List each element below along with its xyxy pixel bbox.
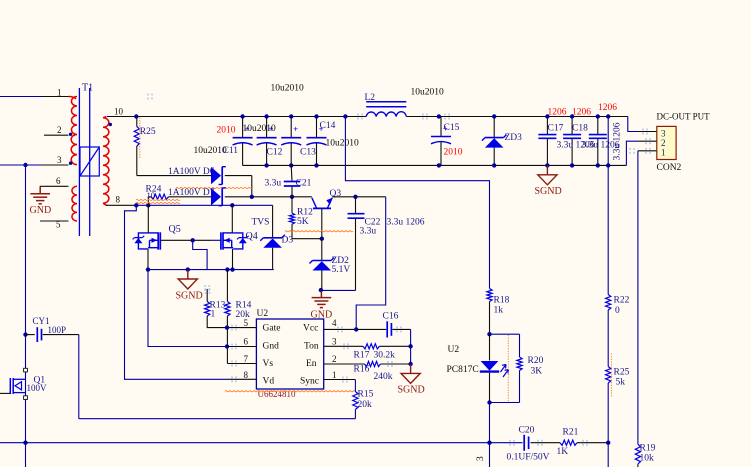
node c19 bot	[596, 163, 600, 167]
svg-text:5: 5	[56, 220, 61, 230]
erc ticks rail	[357, 114, 588, 446]
orange mark under R24 b	[136, 202, 180, 203]
wire pin 10 stub	[107, 116, 136, 118]
svg-text:10k: 10k	[640, 453, 655, 463]
transistor Q3	[312, 189, 341, 208]
pin number 5	[244, 318, 249, 328]
capacitor C12	[257, 117, 283, 166]
orange mark opto	[507, 335, 509, 402]
svg-text:0: 0	[615, 306, 620, 316]
node left-rail bottom	[23, 441, 27, 445]
svg-text:R18: R18	[494, 296, 510, 306]
label pin 1	[57, 88, 62, 98]
svg-text:Sync: Sync	[300, 376, 319, 386]
node ton/en	[408, 344, 412, 348]
optocoupler U2 PC817C LED	[447, 334, 509, 402]
transformer phase dot left lower	[69, 162, 72, 165]
wire Q5-Q4 gate link	[160, 239, 211, 241]
svg-text:C12: C12	[267, 147, 283, 157]
node pin8 junction a	[134, 203, 138, 207]
svg-text:Q4: Q4	[246, 231, 258, 242]
node zd3 top	[492, 114, 496, 118]
wire D6 anode rail	[137, 175, 211, 177]
resistor R22	[606, 295, 630, 317]
inductor L2	[365, 93, 407, 117]
resistor R25 (lower)	[606, 354, 630, 398]
wire pin2 stub	[639, 140, 657, 142]
wire Vcc pin	[324, 328, 357, 330]
node c14 bot	[314, 163, 318, 167]
wire gnd-pin drop	[148, 270, 227, 347]
svg-text:5K: 5K	[297, 217, 309, 227]
wire Gnd pin stub	[227, 346, 256, 348]
svg-text:ZD3: ZD3	[505, 133, 523, 143]
resistor R15	[353, 389, 374, 418]
svg-text:6: 6	[244, 337, 249, 347]
node c13 top	[289, 114, 293, 118]
wire pin1 drop	[637, 151, 639, 445]
svg-text:C11: C11	[223, 146, 239, 156]
svg-text:Ton: Ton	[304, 341, 319, 351]
connector CON2	[657, 111, 711, 173]
node c15 top	[437, 114, 441, 118]
wire primary pin 3 net	[0, 164, 69, 166]
label pin 2	[57, 125, 62, 135]
label 10u2010 (L2)	[411, 88, 445, 98]
svg-text:R21: R21	[563, 428, 579, 438]
svg-text:10u2010: 10u2010	[326, 138, 360, 148]
node pin3/left-rail junction	[23, 163, 27, 167]
transformer T1 core	[79, 88, 89, 236]
svg-text:2: 2	[332, 354, 337, 364]
wire pin3 stub	[639, 131, 657, 133]
wire sgnd bus	[148, 269, 274, 271]
svg-text:C18: C18	[572, 124, 588, 134]
capacitor C17	[538, 117, 563, 166]
label 3.3u 1206 b	[582, 140, 620, 150]
wire D7 anode	[169, 196, 212, 198]
svg-text:10u2010: 10u2010	[411, 88, 445, 98]
resistor R19	[635, 443, 655, 467]
label 1206 (C19)	[598, 103, 617, 113]
svg-text:1: 1	[661, 148, 666, 158]
node c15 bot	[437, 163, 441, 167]
wire Q3 base	[321, 209, 323, 239]
svg-text:1: 1	[57, 88, 62, 98]
orange mark under R24 a	[136, 199, 180, 200]
node c13 bot	[289, 163, 293, 167]
svg-text:2: 2	[661, 138, 666, 148]
node c11 top	[240, 114, 244, 118]
node opto top	[487, 332, 491, 336]
node en	[408, 362, 412, 366]
svg-text:+: +	[293, 125, 298, 134]
svg-text:3: 3	[661, 128, 666, 138]
pin name Sync	[300, 376, 319, 386]
pin number 1	[332, 370, 337, 380]
node sense mid	[606, 163, 610, 167]
svg-text:3: 3	[332, 337, 337, 347]
resistor R14	[225, 270, 252, 364]
ground SGND (output)	[535, 165, 562, 196]
pin number 6	[244, 337, 249, 347]
label 10u2010 (C12)	[243, 124, 277, 134]
svg-text:R25: R25	[614, 368, 630, 378]
node base/zd2	[320, 237, 324, 241]
pin name En	[306, 359, 317, 369]
svg-text:100V: 100V	[27, 383, 48, 393]
node D6/D7 join	[250, 195, 254, 199]
label pin 6	[56, 176, 61, 186]
resistor R13	[204, 285, 227, 328]
svg-text:Q3: Q3	[330, 189, 342, 199]
wire sync bottom rail	[79, 418, 356, 420]
wire C22-rail drop to Vcc	[356, 197, 386, 330]
diode D6	[211, 167, 226, 185]
wire R16 to node	[381, 346, 411, 364]
transistor Q4	[221, 231, 258, 250]
wire Q4 source	[232, 249, 234, 270]
node sgnd bus sgnd-stub	[186, 267, 190, 271]
ground GND (primary)	[30, 186, 52, 216]
svg-text:3: 3	[476, 456, 486, 461]
node sense top	[606, 114, 610, 118]
svg-text:100P: 100P	[48, 325, 67, 335]
svg-text:20k: 20k	[358, 400, 373, 410]
wire Vcc to C16	[356, 328, 386, 330]
label pin 8	[116, 195, 121, 205]
wire R12 to base	[292, 238, 322, 240]
svg-text:Vcc: Vcc	[303, 323, 318, 333]
node zd2/gnd	[319, 288, 323, 292]
svg-text:PC817C: PC817C	[447, 365, 479, 375]
node gate link tap	[191, 238, 195, 242]
capacitor C16	[383, 311, 399, 337]
wire opto to rail	[489, 403, 491, 467]
label 3.3u 1206 a	[557, 140, 595, 150]
transistor Q1	[0, 368, 47, 399]
svg-text:3K: 3K	[531, 367, 543, 377]
zener ZD3	[482, 117, 522, 166]
svg-text:C21: C21	[296, 178, 312, 188]
node c14 top	[314, 114, 318, 118]
node R12 tap	[290, 195, 294, 199]
svg-text:T1: T1	[82, 83, 93, 94]
svg-text:3: 3	[57, 155, 62, 165]
pin number 8	[244, 370, 249, 380]
capacitor C15	[431, 117, 463, 166]
node rail/opto	[487, 441, 491, 445]
label net 3 rotated	[476, 456, 486, 461]
wire bottom cap bus	[243, 164, 627, 166]
node pc817 feed tap	[343, 114, 347, 118]
svg-text:0.1UF/50V: 0.1UF/50V	[507, 453, 550, 463]
svg-text:U2: U2	[448, 345, 460, 355]
svg-text:R14: R14	[236, 300, 252, 310]
node rail/sense	[606, 441, 610, 445]
node C22 tap	[353, 195, 357, 199]
label U2 (controller)	[257, 309, 269, 319]
svg-text:7: 7	[244, 354, 249, 364]
svg-text:C15: C15	[444, 123, 460, 133]
transformer T1 secondary winding (pins 10-8)	[103, 117, 109, 206]
wire En pin	[324, 363, 365, 365]
svg-text:U6624810: U6624810	[258, 389, 296, 399]
node c12 bot	[264, 163, 268, 167]
orange mark under U2 box	[225, 391, 355, 392]
label U6624810	[258, 389, 296, 399]
svg-text:C14: C14	[320, 121, 336, 131]
wire Q3 emitter rail	[332, 196, 386, 198]
svg-text:10: 10	[114, 107, 124, 117]
wire primary pin 1 net	[0, 96, 69, 98]
wire D7 cathode rail	[225, 196, 292, 198]
svg-text:En: En	[306, 359, 317, 369]
svg-text:SGND: SGND	[398, 384, 425, 395]
node c18 top	[570, 114, 574, 118]
wire pin2 trace	[626, 141, 638, 165]
svg-text:5k: 5k	[616, 378, 626, 388]
svg-text:R19: R19	[640, 443, 656, 453]
node gnd pin/r14	[225, 344, 229, 348]
svg-text:8: 8	[116, 195, 121, 205]
capacitor CY1	[26, 316, 79, 342]
svg-text:C20: C20	[519, 425, 535, 435]
node D3 tap	[251, 196, 253, 198]
IC U2 controller box	[256, 319, 323, 389]
node opto bottom	[487, 400, 491, 404]
node pin8 junction b	[146, 203, 150, 207]
svg-text:R20: R20	[528, 356, 544, 366]
wire zd2-c22 link	[321, 289, 356, 291]
node CY1 tap	[23, 332, 27, 336]
pin name Gnd	[263, 341, 280, 351]
wire Q5 source	[147, 249, 149, 270]
svg-text:R15: R15	[358, 389, 374, 399]
wire pin1 stub	[638, 150, 657, 152]
wire primary pin 2 stub	[44, 134, 69, 136]
pin number 7	[244, 354, 249, 364]
node pin10/R25	[134, 114, 138, 118]
wire Gate pin stub	[227, 327, 256, 329]
wire pin3 trace	[628, 117, 639, 132]
capacitor C19	[589, 117, 607, 166]
svg-text:Gate: Gate	[263, 323, 281, 333]
svg-text:5.1V: 5.1V	[332, 265, 351, 275]
transformer phase dot secondary	[109, 123, 112, 126]
wire D6 cathode elbow	[225, 176, 252, 197]
transformer phase dot left upper	[69, 133, 72, 136]
resistor R24	[146, 184, 169, 205]
orange mark under D7 text	[176, 187, 252, 188]
node c17 top	[545, 114, 549, 118]
svg-text:R22: R22	[614, 296, 630, 306]
svg-text:10u2010: 10u2010	[271, 84, 305, 94]
svg-text:1: 1	[211, 310, 216, 320]
wire pin 5 stub	[40, 220, 69, 222]
svg-text:C16: C16	[383, 311, 399, 321]
resistor R18	[487, 289, 510, 335]
svg-text:3.3u: 3.3u	[360, 226, 377, 236]
capacitor C18	[563, 117, 588, 166]
label 3.3u 1206 rotated	[613, 122, 623, 160]
svg-text:1k: 1k	[494, 306, 504, 316]
TVS D3	[252, 205, 294, 269]
svg-text:5: 5	[244, 318, 249, 328]
pin name Gate	[263, 323, 281, 333]
label C22 size	[387, 217, 425, 227]
wire pin 6 stub	[40, 185, 69, 187]
label D7	[168, 188, 215, 198]
pin name Vd	[263, 376, 275, 386]
node Q4 drain tap	[230, 203, 234, 207]
label 2010 (C11)	[217, 125, 236, 135]
svg-text:R17: R17	[354, 350, 370, 360]
svg-text:4: 4	[332, 318, 337, 328]
svg-text:GND: GND	[311, 310, 333, 321]
svg-text:1A100V D7: 1A100V D7	[168, 188, 215, 198]
node vcc	[354, 327, 358, 331]
capacitor C20	[507, 425, 550, 462]
svg-text:U2: U2	[257, 309, 269, 319]
label 10u2010 (C14)	[326, 138, 360, 148]
pin number 3	[332, 337, 337, 347]
node c12 top	[264, 114, 268, 118]
wire Sync pin	[324, 380, 356, 392]
node zd3 bot	[492, 163, 496, 167]
svg-text:C13: C13	[300, 147, 316, 157]
svg-text:1206: 1206	[572, 108, 591, 118]
wire Q4 gate stub	[212, 239, 221, 241]
capacitor C22	[348, 197, 381, 291]
pin name Ton	[304, 341, 319, 351]
transformer T1 core box with diagonal	[80, 147, 99, 176]
erc ticks misc	[147, 94, 402, 383]
transistor Q5	[133, 224, 181, 250]
svg-text:Gnd: Gnd	[263, 341, 280, 351]
diode D7	[211, 188, 226, 206]
svg-text:1A100V D6: 1A100V D6	[168, 167, 215, 177]
svg-text:R25: R25	[140, 127, 156, 137]
svg-text:2010: 2010	[444, 147, 463, 157]
svg-text:3.3u 1206: 3.3u 1206	[613, 122, 623, 160]
node sgnd bus q5	[146, 267, 150, 271]
pin number 2	[332, 354, 337, 364]
wire Q4 drain	[231, 205, 233, 233]
resistor R25	[134, 117, 156, 176]
svg-text:1206: 1206	[598, 103, 617, 113]
resistor R12	[289, 197, 313, 239]
label 1206 (C17)	[548, 108, 567, 118]
svg-text:Q5: Q5	[169, 224, 181, 235]
svg-text:1K: 1K	[557, 447, 569, 457]
node c17 bot	[545, 163, 549, 167]
capacitor C11	[194, 117, 253, 166]
node sgnd bus r14	[225, 267, 229, 271]
wire C16 to node	[392, 329, 410, 346]
orange mark R12 row	[285, 231, 353, 232]
wire Ton pin	[324, 345, 363, 347]
svg-text:8: 8	[244, 370, 249, 380]
svg-text:SGND: SGND	[176, 290, 203, 301]
pin number 4	[332, 318, 337, 328]
wire Vd pin stub	[227, 378, 256, 380]
node c19 top	[596, 114, 600, 118]
wire R17 to node	[379, 345, 410, 347]
resistor R21	[557, 428, 579, 458]
wire output sense drop	[607, 117, 609, 467]
svg-text:3.3u 1206: 3.3u 1206	[387, 217, 425, 227]
pin name Vcc	[303, 323, 318, 333]
wire gate link to sgnd bus	[193, 240, 207, 269]
svg-text:SGND: SGND	[535, 186, 562, 197]
pin name Vs	[263, 359, 274, 369]
label D6	[168, 167, 215, 177]
svg-text:10: 10	[147, 190, 156, 200]
ground SGND (feedback)	[398, 364, 425, 395]
wire Q5 drain	[147, 205, 149, 233]
svg-text:10u2010: 10u2010	[243, 124, 277, 134]
wire top output bus	[136, 116, 628, 118]
wire Vs pin stub	[227, 363, 256, 365]
svg-text:240k: 240k	[374, 372, 393, 382]
wire left rail vertical	[25, 165, 27, 467]
wire bottom rail	[0, 442, 608, 444]
svg-text:30.2k: 30.2k	[374, 350, 396, 360]
node gate pin/r14	[225, 325, 229, 329]
svg-text:Vs: Vs	[263, 359, 274, 369]
ground SGND (bus)	[176, 270, 203, 302]
resistor R16	[354, 361, 393, 382]
transformer T1 aux winding (pins 6-5)	[72, 186, 77, 221]
label pin 3	[57, 155, 62, 165]
ground GND (bias)	[311, 290, 333, 320]
svg-text:2: 2	[57, 125, 62, 135]
svg-text:D3: D3	[282, 236, 294, 246]
svg-text:R16: R16	[354, 364, 370, 374]
resistor R17	[354, 344, 396, 361]
wire pc817 feed	[345, 117, 489, 289]
svg-text:R12: R12	[297, 207, 313, 217]
node c18 bot	[570, 163, 574, 167]
svg-text:1: 1	[332, 370, 337, 380]
transformer T1 primary winding B (pins 2-3)	[71, 135, 77, 165]
svg-text:GND: GND	[30, 205, 52, 216]
erc ticks con2	[629, 129, 651, 154]
capacitor C13	[281, 117, 316, 166]
zener ZD2	[310, 239, 351, 290]
svg-text:Vd: Vd	[263, 376, 275, 386]
svg-text:3.3u: 3.3u	[265, 178, 282, 188]
transformer T1 label	[82, 83, 93, 94]
label pin 5	[56, 220, 61, 230]
wire 197 rail left	[292, 196, 312, 198]
transformer T1 primary winding A (pins 1-2)	[69, 97, 78, 135]
node sgnd bus q4	[230, 267, 234, 271]
capacitor C14	[307, 117, 336, 166]
wire pin 8 stub	[106, 204, 273, 206]
label 1206 (C18)	[572, 108, 591, 118]
label 10u2010 (top)	[271, 84, 305, 94]
wire Vd jog	[125, 205, 228, 379]
svg-text:2010: 2010	[217, 125, 236, 135]
svg-text:DC-OUT PUT: DC-OUT PUT	[657, 111, 711, 121]
svg-text:C17: C17	[548, 124, 564, 134]
resistor R20	[490, 334, 544, 402]
svg-text:TVS: TVS	[252, 217, 270, 227]
wire CY1 elbow	[78, 335, 80, 419]
svg-text:1206: 1206	[548, 108, 567, 118]
